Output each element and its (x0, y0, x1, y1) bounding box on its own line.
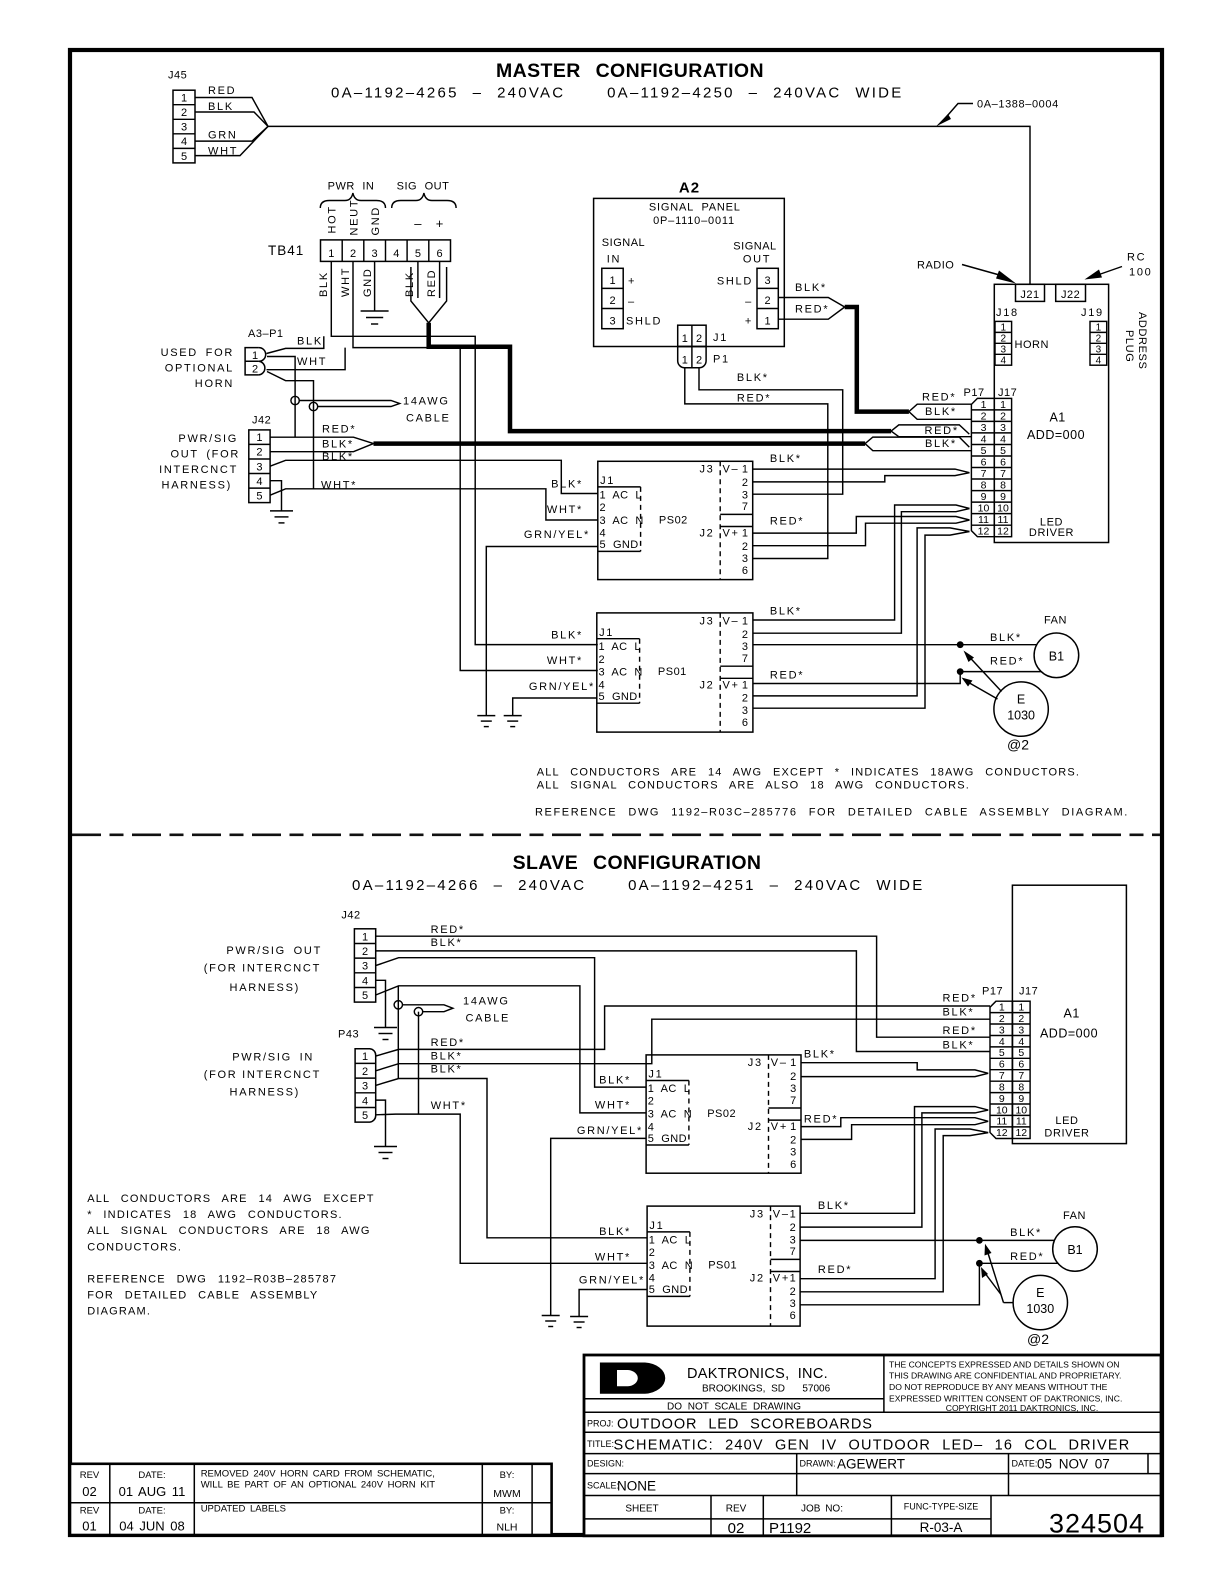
terminal block TB41 (268, 240, 451, 262)
sheet row cell dividers (711, 1496, 991, 1536)
svg-text:BY:: BY: (500, 1470, 515, 1481)
wire pair PS01 J2 to P17-12 (slave) (800, 1129, 988, 1292)
junction circle 14AWG tap 1 (291, 396, 299, 404)
wire PS02 J1-5 to ground (slave) (551, 1138, 646, 1315)
junction circle 14AWG tap 2 (slave) (414, 1008, 422, 1016)
svg-text:1: 1 (742, 679, 750, 691)
svg-text:P1: P1 (713, 353, 730, 365)
svg-text:1: 1 (790, 1057, 798, 1069)
svg-text:RED*: RED* (943, 1025, 977, 1037)
svg-text:BLK*: BLK* (322, 438, 354, 450)
label 0A-1388-0004 with leader (936, 99, 1059, 127)
svg-text:04 JUN 08: 04 JUN 08 (119, 1519, 184, 1534)
wire J42-4 to ground (slave) (376, 980, 386, 1027)
svg-text:4: 4 (999, 1036, 1005, 1048)
svg-text:3 AC N: 3 AC N (649, 1260, 693, 1272)
svg-text:0P–1110–0011: 0P–1110–0011 (653, 215, 735, 227)
svg-text:BLK*: BLK* (818, 1200, 850, 1212)
svg-text:J1: J1 (649, 1220, 664, 1232)
wire A3-P1-2 stub to WHT net (267, 348, 346, 370)
wire J45-4 (195, 126, 268, 141)
svg-text:4: 4 (1096, 355, 1102, 366)
svg-text:HORN: HORN (1015, 339, 1049, 351)
junction dot fan BLK* (slave) (976, 1237, 983, 1244)
wire A3-P1-1 branch down to J42-1 (267, 357, 295, 438)
svg-text:7: 7 (790, 1095, 798, 1107)
svg-text:BLK*: BLK* (804, 1049, 836, 1061)
svg-text:BY:: BY: (500, 1506, 515, 1517)
fan motor B1 (slave) (1053, 1227, 1098, 1272)
svg-text:2: 2 (1096, 334, 1102, 345)
wire pair PS01 J3 to P17-10 (slave) (800, 1107, 988, 1228)
svg-text:HARNESS): HARNESS) (230, 1086, 300, 1098)
cable wedge P17 pins 1-2 (909, 404, 972, 419)
wire J42-5 to PS02 J1-3 (slave) (376, 986, 646, 1113)
svg-text:2: 2 (999, 1013, 1005, 1025)
svg-text:3: 3 (1000, 422, 1006, 434)
svg-text:ADD=000: ADD=000 (1040, 1027, 1098, 1041)
svg-text:7: 7 (999, 1070, 1005, 1082)
wire PS01 J2-3 to fan RED* (slave) (800, 1263, 1058, 1305)
label RC 100 with arrow (1085, 252, 1153, 280)
svg-text:B1: B1 (1049, 649, 1064, 663)
svg-text:WHT*: WHT* (595, 1251, 631, 1263)
svg-text:RED*: RED* (737, 392, 771, 404)
svg-text:1: 1 (328, 248, 334, 260)
svg-text:–: – (745, 296, 753, 308)
svg-text:5: 5 (181, 151, 187, 163)
svg-text:8: 8 (1000, 479, 1006, 491)
svg-text:J21: J21 (1020, 289, 1039, 301)
svg-text:RED*: RED* (795, 303, 829, 315)
svg-text:V–: V– (771, 1057, 788, 1069)
power supply PS01 (597, 613, 753, 732)
svg-text:3: 3 (742, 489, 750, 501)
svg-text:RED*: RED* (431, 924, 465, 936)
svg-text:ADD=000: ADD=000 (1027, 428, 1085, 442)
svg-text:CONDUCTORS.: CONDUCTORS. (87, 1241, 182, 1253)
svg-text:SHEET: SHEET (625, 1504, 658, 1515)
svg-text:–: – (628, 296, 636, 308)
svg-text:OUT (FOR: OUT (FOR (170, 449, 240, 461)
svg-text:NLH: NLH (496, 1522, 517, 1534)
svg-text:2: 2 (256, 447, 262, 459)
wire P43-1 to P17-1 (slave) (376, 1006, 990, 1056)
wire PS01 J1-5 to ground (513, 698, 597, 716)
svg-text:REV: REV (726, 1504, 747, 1515)
wire P43-5 to PS01 J1-3 (slave) (376, 1114, 647, 1263)
svg-text:6: 6 (742, 565, 750, 577)
svg-text:2: 2 (696, 354, 702, 366)
svg-text:1 AC L: 1 AC L (599, 641, 641, 653)
svg-text:J42: J42 (252, 415, 271, 427)
cable shield TB41 sig out (411, 267, 447, 323)
svg-text:6: 6 (1000, 456, 1006, 468)
svg-text:DAKTRONICS, INC.: DAKTRONICS, INC. (687, 1366, 828, 1382)
wire J42-4 to ground (270, 481, 281, 511)
svg-text:10: 10 (996, 1104, 1008, 1116)
svg-text:SHLD: SHLD (717, 276, 753, 288)
svg-text:10: 10 (997, 503, 1009, 515)
svg-text:FAN: FAN (1063, 1210, 1086, 1222)
svg-text:GRN/YEL*: GRN/YEL* (529, 681, 595, 693)
power supply PS02 (598, 461, 753, 579)
svg-text:6: 6 (999, 1059, 1005, 1071)
svg-text:P43: P43 (338, 1029, 359, 1041)
svg-text:HARNESS): HARNESS) (162, 480, 232, 492)
svg-text:BLK*: BLK* (599, 1226, 631, 1238)
svg-text:3: 3 (1001, 345, 1007, 356)
svg-text:1: 1 (362, 931, 368, 943)
svg-text:MWM: MWM (493, 1488, 520, 1500)
svg-text:RED*: RED* (1010, 1251, 1044, 1263)
svg-text:5 GND: 5 GND (600, 539, 639, 551)
fan motor B1 (1034, 633, 1079, 678)
wire P1-2 BLK* to PS02 J3-3 (699, 368, 843, 494)
wire PS02 J1-5 to ground (486, 547, 598, 716)
svg-text:+: + (745, 316, 753, 328)
svg-text:3: 3 (609, 315, 615, 327)
svg-text:14AWG: 14AWG (463, 996, 510, 1008)
wire TB41-2 WHT down (353, 261, 598, 670)
svg-text:J19: J19 (1081, 307, 1104, 319)
svg-text:02: 02 (728, 1520, 745, 1537)
wire PS01 J2-1 to fan RED* (753, 672, 1041, 684)
svg-text:J17: J17 (998, 387, 1017, 399)
A2 signal-out pins (757, 268, 778, 328)
connector J22 (1056, 284, 1086, 301)
svg-text:V–: V– (723, 615, 740, 627)
svg-text:GRN/YEL*: GRN/YEL* (524, 529, 590, 541)
svg-text:4: 4 (1018, 1036, 1024, 1048)
svg-text:02: 02 (82, 1484, 96, 1499)
svg-text:–: – (414, 216, 422, 231)
svg-text:E: E (1017, 692, 1025, 706)
svg-text:1030: 1030 (1007, 709, 1035, 723)
svg-text:1: 1 (1000, 399, 1006, 411)
connector J17 (master) (994, 387, 1017, 538)
svg-text:BLK*: BLK* (925, 438, 957, 450)
svg-text:4: 4 (256, 476, 262, 488)
connector J19 (1081, 307, 1107, 366)
svg-text:PS02: PS02 (659, 514, 688, 526)
svg-text:1: 1 (999, 1002, 1005, 1014)
svg-text:UPDATED LABELS: UPDATED LABELS (201, 1504, 286, 1515)
svg-text:REFERENCE DWG 1192–R03B–285787: REFERENCE DWG 1192–R03B–285787 (87, 1273, 337, 1285)
svg-text:DO NOT REPRODUCE BY ANY MEANS: DO NOT REPRODUCE BY ANY MEANS WITHOUT TH… (889, 1382, 1108, 1392)
svg-text:1: 1 (765, 315, 771, 327)
svg-text:BLK: BLK (208, 101, 234, 113)
svg-text:PWR IN: PWR IN (328, 181, 375, 193)
svg-text:2: 2 (1001, 334, 1007, 345)
svg-text:JOB NO:: JOB NO: (801, 1504, 843, 1515)
svg-text:05 NOV 07: 05 NOV 07 (1037, 1457, 1110, 1472)
svg-text:REMOVED 240V HORN CARD FRO: REMOVED 240V HORN CARD FROM SCHEMATIC, (201, 1469, 435, 1480)
svg-text:AGEWERT: AGEWERT (837, 1457, 905, 1472)
svg-text:J3: J3 (748, 1057, 763, 1069)
svg-text:RED: RED (426, 269, 438, 297)
svg-text:01 AUG 11: 01 AUG 11 (119, 1484, 186, 1499)
svg-text:4: 4 (362, 1095, 368, 1107)
svg-text:DESIGN:: DESIGN: (587, 1459, 624, 1469)
junction dot fan RED* (slave) (976, 1260, 983, 1267)
wire pair PS01 J2 to P17-12 (753, 528, 970, 708)
svg-text:2: 2 (742, 477, 750, 489)
svg-text:RED*: RED* (818, 1264, 852, 1276)
svg-text:2: 2 (765, 295, 771, 307)
connector J17 (slave) (1012, 986, 1038, 1140)
svg-text:1: 1 (790, 1121, 798, 1133)
wire P1-1 RED* to PS02 J2-3 (685, 368, 828, 559)
svg-text:2: 2 (1018, 1013, 1024, 1025)
svg-text:E: E (1036, 1286, 1044, 1300)
wire J42-2 to P17-5 (slave) (376, 951, 990, 1052)
svg-text:BLK*: BLK* (431, 1050, 463, 1062)
wire J42-1 to P17-4 (slave) (376, 936, 990, 1037)
svg-text:2: 2 (742, 693, 750, 705)
svg-text:11: 11 (998, 514, 1009, 526)
wire J45-2 (195, 112, 268, 126)
vertical tap wire 1 (slave) (397, 986, 399, 1079)
svg-text:5: 5 (362, 1110, 368, 1122)
svg-text:11: 11 (1016, 1116, 1027, 1128)
ground J42 (slave) (374, 1028, 397, 1040)
svg-text:SIGNAL: SIGNAL (602, 237, 645, 249)
master/slave dashed divider (72, 833, 1160, 836)
svg-text:NONE: NONE (617, 1479, 656, 1494)
svg-text:1 AC L: 1 AC L (648, 1083, 690, 1095)
svg-text:BLK*: BLK* (551, 629, 583, 641)
wire TB41-5 sig (417, 261, 419, 298)
svg-text:PWR/SIG: PWR/SIG (178, 433, 238, 445)
svg-text:PS01: PS01 (658, 666, 687, 678)
svg-text:* INDICATES 18 AWG CONDUCTORS.: * INDICATES 18 AWG CONDUCTORS. (87, 1209, 343, 1221)
junction dot fan RED* (957, 668, 964, 675)
svg-text:SLAVE CONFIGURATION: SLAVE CONFIGURATION (513, 852, 762, 874)
svg-text:(FOR INTERCNCT: (FOR INTERCNCT (204, 1069, 321, 1081)
svg-text:HOT: HOT (327, 205, 339, 233)
svg-text:4: 4 (600, 528, 607, 540)
svg-text:RED*: RED* (431, 1037, 465, 1049)
svg-text:IN: IN (607, 254, 621, 266)
wire pair PS02 J2 to P17-11 (753, 517, 970, 546)
svg-text:1030: 1030 (1026, 1302, 1054, 1316)
svg-text:2: 2 (350, 248, 356, 260)
svg-text:RED*: RED* (804, 1114, 838, 1126)
svg-text:1: 1 (362, 1051, 368, 1063)
wire P43-2 to P17-2 (slave) (376, 1019, 990, 1071)
svg-text:4: 4 (649, 1273, 656, 1285)
svg-text:P17: P17 (982, 986, 1003, 998)
proprietary fine print (889, 1360, 1122, 1413)
svg-text:+: + (436, 216, 444, 231)
14AWG cable pointer (299, 401, 399, 407)
svg-text:J3: J3 (699, 464, 714, 476)
svg-text:RED*: RED* (925, 425, 959, 437)
svg-text:J2: J2 (699, 679, 714, 691)
svg-text:J2: J2 (748, 1121, 763, 1133)
svg-text:2: 2 (362, 946, 368, 958)
svg-text:4: 4 (181, 136, 187, 148)
svg-text:GRN/YEL*: GRN/YEL* (579, 1274, 645, 1286)
svg-text:2: 2 (790, 1222, 798, 1234)
svg-text:3: 3 (1018, 1024, 1024, 1036)
svg-text:@2: @2 (1007, 737, 1029, 753)
svg-text:3: 3 (362, 1081, 368, 1093)
svg-text:1: 1 (181, 93, 187, 105)
svg-text:WHT: WHT (340, 267, 352, 297)
svg-text:2: 2 (696, 333, 702, 345)
svg-text:5: 5 (999, 1047, 1005, 1059)
ground PS02 (477, 716, 495, 727)
svg-text:SIGNAL PANEL: SIGNAL PANEL (649, 202, 741, 214)
svg-text:1: 1 (790, 1209, 798, 1221)
svg-text:2: 2 (790, 1134, 798, 1146)
svg-text:OPTIONAL: OPTIONAL (165, 363, 234, 375)
svg-text:2: 2 (790, 1071, 798, 1083)
svg-text:9: 9 (981, 491, 987, 503)
svg-text:J2: J2 (699, 528, 714, 540)
svg-text:RED*: RED* (770, 670, 804, 682)
svg-text:2: 2 (600, 502, 607, 514)
svg-text:4: 4 (362, 975, 368, 987)
svg-text:J1: J1 (648, 1069, 663, 1081)
wire J45-1 (195, 98, 268, 127)
svg-text:BLK: BLK (404, 271, 416, 297)
svg-text:ALL SIGNAL CONDUCTORS ARE ALSO: ALL SIGNAL CONDUCTORS ARE ALSO 18 AWG CO… (537, 780, 970, 792)
wire PS01 J1-5 to ground (slave) (579, 1290, 647, 1317)
svg-text:SCALE:: SCALE: (587, 1481, 619, 1491)
svg-text:GRN: GRN (208, 130, 238, 142)
svg-text:A3–P1: A3–P1 (248, 328, 284, 340)
svg-text:7: 7 (742, 653, 750, 665)
svg-text:J3: J3 (699, 615, 714, 627)
svg-text:J3: J3 (750, 1209, 765, 1221)
svg-text:1: 1 (790, 1273, 798, 1285)
svg-text:J1: J1 (713, 332, 728, 344)
svg-text:LED: LED (1055, 1115, 1078, 1127)
svg-text:DO NOT SCALE DRAWING: DO NOT SCALE DRAWING (667, 1401, 801, 1412)
svg-text:J17: J17 (1019, 986, 1038, 998)
wire PS01 J3-3 to fan BLK* (753, 644, 1037, 646)
svg-text:9: 9 (999, 1093, 1005, 1105)
svg-text:5 GND: 5 GND (649, 1284, 688, 1296)
design/drawn/date cell dividers (797, 1454, 1148, 1496)
svg-text:RED: RED (208, 85, 236, 97)
svg-text:PWR/SIG OUT: PWR/SIG OUT (226, 945, 322, 957)
svg-text:1: 1 (682, 333, 688, 345)
connector J45 (168, 70, 195, 163)
svg-text:2: 2 (981, 410, 987, 422)
svg-text:BLK*: BLK* (943, 1006, 975, 1018)
svg-text:BLK*: BLK* (737, 372, 769, 384)
svg-text:4: 4 (393, 248, 399, 260)
svg-text:FUNC-TYPE-SIZE: FUNC-TYPE-SIZE (904, 1502, 979, 1512)
svg-text:8: 8 (981, 479, 987, 491)
connector J18 (995, 307, 1019, 366)
svg-text:BLK*: BLK* (322, 451, 354, 463)
svg-text:3: 3 (181, 122, 187, 134)
svg-text:1: 1 (1096, 323, 1102, 334)
svg-text:12: 12 (978, 526, 990, 538)
svg-text:2: 2 (599, 654, 606, 666)
svg-text:J1: J1 (599, 627, 614, 639)
wire J42-3 BLK* to PS02 J1-1 (270, 460, 598, 493)
svg-text:GND: GND (370, 206, 382, 236)
svg-text:1: 1 (981, 399, 987, 411)
wire J45-5 (195, 126, 268, 155)
wire TB41-6 sig (439, 261, 441, 298)
svg-text:2: 2 (790, 1286, 798, 1298)
svg-text:ADDRESS: ADDRESS (1136, 312, 1148, 369)
ground J42 (270, 511, 293, 523)
svg-text:SIG OUT: SIG OUT (397, 181, 450, 193)
svg-text:6: 6 (1018, 1059, 1024, 1071)
svg-text:RED*: RED* (990, 656, 1024, 668)
LED driver A1 (slave) (1012, 885, 1126, 1143)
svg-text:ALL SIGNAL CONDUCTORS ARE 18 A: ALL SIGNAL CONDUCTORS ARE 18 AWG (87, 1225, 370, 1237)
svg-text:WHT*: WHT* (547, 504, 583, 516)
svg-text:TITLE:: TITLE: (587, 1439, 614, 1449)
svg-text:2: 2 (609, 295, 615, 307)
svg-text:324504: 324504 (1049, 1509, 1145, 1539)
svg-text:5: 5 (1000, 445, 1006, 457)
LED driver A1 (master) (994, 284, 1108, 542)
svg-text:1: 1 (252, 350, 258, 362)
svg-text:CABLE: CABLE (406, 413, 451, 425)
svg-text:THE CONCEPTS EXPRESSED AND DET: THE CONCEPTS EXPRESSED AND DETAILS SHOWN… (889, 1360, 1119, 1370)
svg-text:3: 3 (999, 1024, 1005, 1036)
svg-text:2: 2 (742, 541, 750, 553)
svg-text:3: 3 (362, 961, 368, 973)
svg-text:NEUT: NEUT (348, 199, 360, 236)
svg-text:6: 6 (742, 717, 750, 729)
svg-text:7: 7 (1018, 1070, 1024, 1082)
svg-text:3: 3 (790, 1083, 798, 1095)
svg-text:RED*: RED* (770, 516, 804, 528)
svg-text:RED*: RED* (943, 993, 977, 1005)
reference balloon E1030 (994, 682, 1048, 736)
wire TB41-3 to ground (374, 261, 376, 311)
svg-text:BLK: BLK (297, 336, 323, 348)
wire A3-P1-2 branch down to WHT* net (267, 372, 314, 489)
junction circle 14AWG tap 2 (309, 402, 317, 410)
connector P43 (slave) (338, 1029, 376, 1123)
svg-text:4: 4 (1000, 433, 1006, 445)
svg-text:3: 3 (765, 275, 771, 287)
power supply PS01 (slave) (647, 1206, 800, 1326)
svg-text:7: 7 (790, 1246, 798, 1258)
svg-text:6: 6 (790, 1159, 798, 1171)
thick signal cable TB41 to P17 wedge (429, 323, 891, 431)
logo cell divider (585, 1355, 884, 1412)
svg-text:4: 4 (1001, 355, 1007, 366)
wire pair PS02 J2 to P17-11 (slave) (801, 1118, 989, 1140)
ground P43 (slave) (374, 1147, 397, 1159)
svg-text:12: 12 (997, 526, 1009, 538)
svg-text:9: 9 (1018, 1093, 1024, 1105)
svg-text:WHT*: WHT* (595, 1099, 631, 1111)
thick intercnct cable J42 to P17 wedge (374, 441, 866, 446)
svg-text:7: 7 (742, 501, 750, 513)
wire pair PS01 J3 to P17-10 (753, 505, 970, 633)
connector J1/P1 of A2 (678, 325, 730, 368)
svg-text:BLK*: BLK* (795, 282, 827, 294)
svg-text:3: 3 (742, 641, 750, 653)
svg-text:HORN: HORN (195, 378, 234, 390)
svg-text:12: 12 (1015, 1127, 1027, 1139)
svg-text:REV: REV (80, 1506, 100, 1517)
